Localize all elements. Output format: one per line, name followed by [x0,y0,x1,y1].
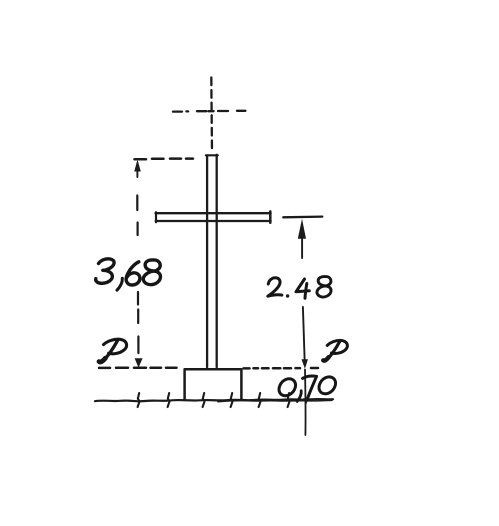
crossbar right end cap [269,211,272,222]
cross post top cap [206,154,218,156]
label 2.48 [268,277,331,299]
arrow down at ground line (0.70) [303,398,309,404]
dimension 2.48 upper arrow (pointing up) [298,219,306,239]
digit 6 [126,262,140,285]
comma [297,391,301,402]
hatch tick at x=231 [231,393,233,407]
crossbar bottom edge [156,220,271,222]
digit 8 [143,260,160,285]
label P left [99,339,127,362]
cross post left edge [206,156,208,368]
ground line second hand pass [218,400,332,401]
extension tick: top of 2.48 dimension [283,215,322,218]
digit 3 [96,259,114,283]
cross post right edge [216,155,218,367]
dimension line below ground datum (0.70) [304,370,307,436]
period [286,294,289,297]
arrow up (3,68 top) [136,163,138,177]
arrow down (2.48 bottom) [302,359,309,369]
label P right [323,340,347,361]
digit 4 [296,279,309,292]
hatch tick at x=168 [168,393,170,407]
dimension line 3,68: vertical dashed shaft [137,196,138,354]
extension line: top of 3,68 dimension (horizontal dashes) [135,157,194,160]
digit 0 [279,379,296,396]
dimension 2.48 lower segment [303,307,305,362]
centerline horizontal dash-dot [173,110,245,113]
comma [117,278,122,290]
hatch tick at x=259 [259,393,261,407]
digit 7 [303,376,317,398]
ground line (hatched, wavy) [95,399,333,401]
centerline vertical dashed axis [210,78,213,152]
hatch tick at x=138 [138,393,140,407]
ground datum dashed line (left of footing) [99,366,177,369]
digit 2 [268,278,282,296]
ground datum dashed line (right of footing) [244,367,319,370]
footing block [185,369,242,399]
crossbar top edge [156,212,271,214]
crossbar left end cap [155,212,157,222]
digit 0 [319,377,336,394]
label 0,70 [279,376,336,401]
arrow down (3,68 bottom) [135,358,143,367]
label 3,68 [96,259,161,290]
hatch tick at x=288 [288,393,290,407]
hatch tick at x=203 [203,393,205,407]
digit 8 [317,277,331,297]
